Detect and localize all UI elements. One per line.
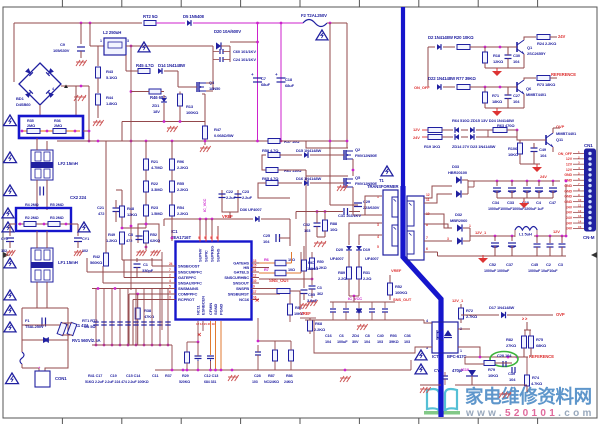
svg-text:SUPHV: SUPHV <box>198 248 203 262</box>
svg-text:1: 1 <box>100 39 102 43</box>
svg-text:R49: R49 <box>108 232 116 237</box>
svg-text:C9: C9 <box>60 42 66 47</box>
svg-text:102: 102 <box>1 249 7 253</box>
svg-text:362: 362 <box>317 292 323 296</box>
svg-text:24V: 24V <box>566 211 573 215</box>
svg-text:CY2: CY2 <box>1 237 8 241</box>
svg-text:13: 13 <box>253 259 257 263</box>
svg-text:D4SB60: D4SB60 <box>16 102 31 107</box>
svg-text:R71: R71 <box>492 93 500 98</box>
svg-text:24KΩ: 24KΩ <box>284 380 293 384</box>
svg-text:12V: 12V <box>566 157 573 161</box>
svg-text:SGND: SGND <box>213 304 218 315</box>
svg-text:12V_1: 12V_1 <box>475 230 487 235</box>
svg-text:C30: C30 <box>513 53 521 58</box>
svg-text:62KΩ: 62KΩ <box>150 238 161 243</box>
svg-text:4: 4 <box>52 87 54 91</box>
svg-text:GND: GND <box>564 189 572 193</box>
svg-text:2.2KΩ: 2.2KΩ <box>177 211 189 216</box>
svg-text:5: 5 <box>377 245 379 249</box>
svg-text:D22 1N4148W R77 39KΩ: D22 1N4148W R77 39KΩ <box>428 76 476 81</box>
svg-text:R74: R74 <box>532 375 540 380</box>
svg-text:100uF: 100uF <box>337 340 348 344</box>
svg-text:C33: C33 <box>507 200 515 205</box>
svg-text:R93: R93 <box>390 334 397 338</box>
svg-text:D20: D20 <box>336 247 344 252</box>
svg-text:Q6: Q6 <box>526 86 532 91</box>
svg-text:3: 3 <box>127 39 129 43</box>
svg-text:1000uF 10uF10uF: 1000uF 10uF10uF <box>528 269 558 273</box>
svg-text:GATEPFC: GATEPFC <box>178 275 196 280</box>
svg-text:MMBT4401: MMBT4401 <box>526 92 547 97</box>
svg-text:24V: 24V <box>566 221 573 225</box>
svg-text:D16 1N4148W: D16 1N4148W <box>296 176 321 181</box>
svg-text:SNSBOOST: SNSBOOST <box>178 264 200 269</box>
svg-text:D2 1N4148W R20 10KΩ: D2 1N4148W R20 10KΩ <box>428 35 474 40</box>
svg-text:CX2 224: CX2 224 <box>70 195 87 200</box>
svg-text:R44: R44 <box>106 95 114 100</box>
svg-text:3.3nF: 3.3nF <box>307 298 318 303</box>
svg-text:104: 104 <box>513 59 520 64</box>
svg-text:68KΩ: 68KΩ <box>536 343 547 348</box>
svg-text:SUPHS: SUPHS <box>216 248 221 262</box>
svg-text:SUPIC: SUPIC <box>204 250 209 262</box>
svg-text:12V: 12V <box>566 168 573 172</box>
svg-text:SNSMAINS: SNSMAINS <box>178 286 199 291</box>
svg-text:10KΩ: 10KΩ <box>508 152 519 157</box>
svg-text:R106: R106 <box>508 146 518 151</box>
svg-text:R52: R52 <box>395 284 403 289</box>
svg-text:5.1KΩ: 5.1KΩ <box>106 75 118 80</box>
svg-text:R47: R47 <box>214 127 222 132</box>
svg-text:12 13 21 20 19: 12 13 21 20 19 <box>196 322 215 326</box>
svg-text:11: 11 <box>578 204 581 208</box>
svg-text:1: 1 <box>460 349 462 353</box>
svg-text:3: 3 <box>447 237 449 241</box>
svg-text:≥ ≥: ≥ ≥ <box>522 316 528 321</box>
svg-text:C52: C52 <box>489 262 497 267</box>
svg-text:24V: 24V <box>540 174 547 179</box>
svg-text:1.2KΩ: 1.2KΩ <box>106 238 118 243</box>
svg-text:24: 24 <box>169 262 173 266</box>
svg-text:SNSOUT: SNSOUT <box>233 281 250 286</box>
svg-text:HBR20100: HBR20100 <box>448 170 468 175</box>
svg-text:C32: C32 <box>303 222 311 227</box>
svg-text:C4: C4 <box>536 200 542 205</box>
svg-text:102: 102 <box>82 249 88 253</box>
svg-text:R23: R23 <box>151 205 159 210</box>
svg-text:L1 5uH: L1 5uH <box>519 232 532 237</box>
svg-text:C22: C22 <box>226 189 234 194</box>
svg-text:103: 103 <box>377 340 383 344</box>
svg-text:560KΩ: 560KΩ <box>90 260 103 265</box>
svg-text:1000uF1000uF1000uF2200uF 1uF: 1000uF1000uF1000uF2200uF 1uF <box>488 207 544 211</box>
svg-text:LF1 15mH: LF1 15mH <box>58 260 78 265</box>
svg-text:12V_1: 12V_1 <box>452 298 464 303</box>
svg-text:R52: R52 <box>150 232 158 237</box>
svg-text:R73 18KΩ: R73 18KΩ <box>537 82 556 87</box>
svg-text:R19 1KΩ: R19 1KΩ <box>424 144 441 149</box>
svg-text:17: 17 <box>253 290 257 294</box>
svg-text:R5 2MΩ: R5 2MΩ <box>50 203 64 207</box>
svg-text:C47: C47 <box>549 200 557 205</box>
svg-text:C8: C8 <box>128 232 134 237</box>
svg-text:D14 1N4148W: D14 1N4148W <box>158 63 186 68</box>
svg-text:R37: R37 <box>165 374 172 378</box>
svg-text:ZD1: ZD1 <box>152 103 160 108</box>
svg-text:C21: C21 <box>97 205 105 210</box>
svg-text:10Ω: 10Ω <box>288 268 295 272</box>
svg-text:CN1: CN1 <box>584 143 593 148</box>
svg-text:R38: R38 <box>144 308 152 313</box>
svg-text:R88: R88 <box>330 221 338 226</box>
svg-text:47KΩ: 47KΩ <box>144 314 155 319</box>
svg-text:C8: C8 <box>365 334 370 338</box>
svg-text:D36 UF4007: D36 UF4007 <box>240 207 263 212</box>
svg-text:R4 2MΩ: R4 2MΩ <box>25 203 39 207</box>
svg-text:4: 4 <box>426 319 428 323</box>
svg-text:12: 12 <box>253 274 257 278</box>
svg-text:R7: R7 <box>264 268 269 272</box>
svg-text:C18: C18 <box>285 77 293 82</box>
svg-text:D32: D32 <box>455 212 463 217</box>
svg-text:CON1: CON1 <box>55 376 67 381</box>
svg-text:R54: R54 <box>177 205 185 210</box>
svg-text:Q2: Q2 <box>355 147 361 152</box>
svg-text:14: 14 <box>578 220 582 224</box>
svg-text:10KΩ: 10KΩ <box>488 373 499 378</box>
svg-text:C3: C3 <box>558 262 564 267</box>
svg-text:F2 T2AL250V: F2 T2AL250V <box>301 13 327 18</box>
svg-text:Q1: Q1 <box>527 45 533 50</box>
svg-text:R58 4.7Ω: R58 4.7Ω <box>262 148 279 153</box>
svg-text:4.7MΩ: 4.7MΩ <box>151 165 163 170</box>
svg-text:C36: C36 <box>404 334 411 338</box>
svg-text:R42: R42 <box>93 254 101 259</box>
svg-text:39KΩ: 39KΩ <box>389 340 399 344</box>
svg-text:C31 102/1KV: C31 102/1KV <box>338 213 361 218</box>
svg-text:C2: C2 <box>546 262 552 267</box>
svg-text:C11: C11 <box>152 374 158 378</box>
svg-text:3: 3 <box>377 223 379 227</box>
svg-text:2.2Ω: 2.2Ω <box>338 276 347 281</box>
svg-text:ZD14 27V D23 1N4148W: ZD14 27V D23 1N4148W <box>452 144 496 149</box>
svg-text:100KΩ: 100KΩ <box>395 290 408 295</box>
svg-text:30V: 30V <box>352 340 359 344</box>
svg-text:R2 2MΩ: R2 2MΩ <box>25 216 39 220</box>
svg-text:TRANSFORMER: TRANSFORMER <box>367 184 399 189</box>
svg-text:223/630V: 223/630V <box>363 205 380 210</box>
svg-text:12V: 12V <box>553 229 560 234</box>
svg-text:COMPPFC: COMPPFC <box>178 292 198 297</box>
svg-text:C40: C40 <box>377 334 384 338</box>
svg-text:R31: R31 <box>363 270 371 275</box>
svg-text:0.068Ω/5W: 0.068Ω/5W <box>214 133 234 138</box>
svg-text:15: 15 <box>253 264 257 268</box>
svg-text:C15 C14: C15 C14 <box>126 374 141 378</box>
svg-text:4.7KΩ: 4.7KΩ <box>531 381 543 386</box>
svg-text:C60 101/1KV: C60 101/1KV <box>233 49 256 54</box>
svg-text:VREF: VREF <box>222 214 233 219</box>
svg-text:UF4007: UF4007 <box>365 256 380 261</box>
svg-text:D33: D33 <box>452 164 460 169</box>
svg-text:C24 101/1KV: C24 101/1KV <box>233 57 256 62</box>
svg-text:L2 250uH: L2 250uH <box>103 30 121 35</box>
svg-text:104: 104 <box>513 99 520 104</box>
svg-text:C37: C37 <box>506 262 514 267</box>
svg-text:SNSFB: SNSFB <box>236 286 249 291</box>
svg-text:R29: R29 <box>182 374 189 378</box>
svg-text:1: 1 <box>469 224 471 228</box>
svg-text:24V: 24V <box>566 205 573 209</box>
svg-text:R82: R82 <box>506 337 514 342</box>
svg-text:C29: C29 <box>363 199 371 204</box>
svg-text:684 331: 684 331 <box>204 380 216 384</box>
svg-text:2SC2655Y: 2SC2655Y <box>527 51 546 56</box>
svg-text:18KΩ: 18KΩ <box>492 99 503 104</box>
svg-text:12V: 12V <box>566 163 573 167</box>
svg-text:C16: C16 <box>325 334 332 338</box>
svg-text:C3: C3 <box>317 286 322 290</box>
svg-text:104: 104 <box>509 377 516 382</box>
svg-text:UF4007: UF4007 <box>330 256 345 261</box>
svg-text:BPC-617C: BPC-617C <box>447 354 467 359</box>
svg-text:GND: GND <box>564 200 572 204</box>
svg-text:R50: R50 <box>317 260 324 264</box>
svg-text:GATELS: GATELS <box>234 270 250 275</box>
svg-text:D15 1N4148W: D15 1N4148W <box>296 148 321 153</box>
svg-text:2.2uF: 2.2uF <box>226 195 237 200</box>
svg-text:D17 1N4148W: D17 1N4148W <box>489 305 514 310</box>
svg-text:C49: C49 <box>539 147 547 152</box>
svg-text:24V: 24V <box>413 135 420 140</box>
svg-text:4: 4 <box>377 235 379 239</box>
svg-text:REFERENCE: REFERENCE <box>529 354 554 359</box>
svg-text:2MΩ: 2MΩ <box>27 124 35 128</box>
svg-text:1.2KΩ: 1.2KΩ <box>307 266 319 271</box>
svg-text:12: 12 <box>578 209 582 213</box>
svg-text:Q5: Q5 <box>355 175 361 180</box>
svg-text:GND: GND <box>564 173 572 177</box>
svg-text:12KΩ: 12KΩ <box>127 212 138 217</box>
svg-text:www.520101.com: www.520101.com <box>465 408 595 419</box>
svg-text:100KΩ: 100KΩ <box>186 110 199 115</box>
svg-text:1000uF 1000uF: 1000uF 1000uF <box>484 269 510 273</box>
svg-text:家电维修资料网: 家电维修资料网 <box>465 386 592 407</box>
svg-text:2.2uF: 2.2uF <box>242 195 253 200</box>
svg-text:R36: R36 <box>54 119 61 123</box>
svg-text:Q11: Q11 <box>556 137 564 142</box>
svg-text:SUPREG: SUPREG <box>210 246 215 262</box>
svg-text:ON_OFF: ON_OFF <box>558 152 573 156</box>
svg-text:11: 11 <box>253 268 256 272</box>
svg-text:10: 10 <box>578 198 582 202</box>
svg-text:IC10: IC10 <box>461 367 470 372</box>
svg-text:SNSAUXPFC: SNSAUXPFC <box>178 281 202 286</box>
svg-text:SNSCURPFC: SNSCURPFC <box>178 270 202 275</box>
svg-text:R22: R22 <box>151 181 159 186</box>
svg-text:C45: C45 <box>531 262 539 267</box>
svg-text:R55: R55 <box>177 181 185 186</box>
svg-text:R67: R67 <box>308 260 316 265</box>
svg-text:R79: R79 <box>488 367 496 372</box>
svg-text:CY1: CY1 <box>82 237 89 241</box>
svg-text:2.2KΩ: 2.2KΩ <box>177 187 189 192</box>
svg-text:MMBT4401: MMBT4401 <box>556 131 577 136</box>
svg-text:SNSCURHBC: SNSCURHBC <box>224 275 249 280</box>
svg-text:R63 470Ω: R63 470Ω <box>497 123 515 128</box>
svg-text:472: 472 <box>98 211 105 216</box>
svg-text:3.3MΩ: 3.3MΩ <box>151 187 163 192</box>
svg-text:104: 104 <box>540 153 547 158</box>
svg-text:FMV12N50E: FMV12N50E <box>355 153 377 158</box>
svg-text:520KΩ: 520KΩ <box>179 380 190 384</box>
svg-text:68uF: 68uF <box>261 82 271 87</box>
svg-text:103: 103 <box>304 228 311 233</box>
svg-text:TEA1716T: TEA1716T <box>171 235 191 240</box>
svg-text:SNSBURST: SNSBURST <box>228 292 250 297</box>
svg-text:NC16: NC16 <box>239 297 250 302</box>
svg-text:SNS_OUT: SNS_OUT <box>393 297 412 302</box>
svg-text:D20 10A/600V: D20 10A/600V <box>214 29 241 34</box>
svg-text:2.2KΩ: 2.2KΩ <box>177 165 189 170</box>
svg-text:18N50: 18N50 <box>209 86 221 91</box>
svg-text:12V: 12V <box>413 127 420 132</box>
svg-text:GND: GND <box>564 195 572 199</box>
svg-text:18V: 18V <box>153 109 160 114</box>
svg-text:C20 104: C20 104 <box>497 353 512 358</box>
svg-text:10Ω: 10Ω <box>330 227 338 232</box>
svg-text:R35: R35 <box>27 119 34 123</box>
svg-text:27KΩ: 27KΩ <box>506 343 517 348</box>
svg-text:BD1: BD1 <box>16 96 25 101</box>
svg-text:472: 472 <box>126 238 133 243</box>
svg-text:6: 6 <box>426 247 428 251</box>
svg-text:C34: C34 <box>492 200 500 205</box>
svg-text:ICT: ICT <box>432 354 439 359</box>
svg-text:T1: T1 <box>379 178 384 183</box>
svg-text:R45 4.7Ω: R45 4.7Ω <box>136 63 154 68</box>
svg-text:IC_VCC: IC_VCC <box>203 198 207 212</box>
svg-text:R18: R18 <box>493 53 501 58</box>
svg-text:C1: C1 <box>143 262 149 267</box>
svg-text:R24 2.2KΩ: R24 2.2KΩ <box>537 41 557 46</box>
svg-text:ON_OFF: ON_OFF <box>414 85 430 90</box>
svg-text:11: 11 <box>426 198 430 202</box>
svg-text:R43: R43 <box>106 69 114 74</box>
svg-text:RCPROT: RCPROT <box>178 297 195 302</box>
svg-text:ESNBCEN: ESNBCEN <box>201 296 206 315</box>
svg-text:C28: C28 <box>254 374 261 378</box>
svg-text:2MΩ: 2MΩ <box>54 124 62 128</box>
svg-text:105/630V: 105/630V <box>53 48 70 53</box>
svg-text:24V: 24V <box>566 216 573 220</box>
svg-text:R75: R75 <box>536 337 544 342</box>
svg-text:NC/24KΩ: NC/24KΩ <box>264 380 279 384</box>
svg-text:R13: R13 <box>186 104 194 109</box>
svg-text:68uF: 68uF <box>285 83 295 88</box>
svg-text:7: 7 <box>426 236 428 240</box>
svg-text:C6: C6 <box>339 334 344 338</box>
svg-text:13: 13 <box>578 214 582 218</box>
svg-text:R3 2MΩ: R3 2MΩ <box>50 216 64 220</box>
svg-text:D19: D19 <box>363 247 371 252</box>
svg-text:1.5MΩ: 1.5MΩ <box>151 211 163 216</box>
svg-text:R41 C17: R41 C17 <box>88 374 102 378</box>
svg-text:R48: R48 <box>127 206 135 211</box>
svg-text:2.2Ω: 2.2Ω <box>363 276 372 281</box>
svg-text:C39: C39 <box>508 371 516 376</box>
svg-text:104: 104 <box>325 340 332 344</box>
svg-text:RT2 5Ω: RT2 5Ω <box>143 14 158 19</box>
svg-text:2.2KΩ: 2.2KΩ <box>314 327 326 332</box>
svg-text:R68: R68 <box>315 321 323 326</box>
svg-text:C23: C23 <box>242 189 250 194</box>
svg-text:12KΩ: 12KΩ <box>493 59 504 64</box>
svg-text:ZD4: ZD4 <box>352 334 360 338</box>
svg-text:C55: C55 <box>308 292 316 297</box>
svg-text:24V: 24V <box>566 227 573 231</box>
svg-text:24V: 24V <box>558 34 565 39</box>
svg-text:R21: R21 <box>151 159 159 164</box>
svg-text:VREF: VREF <box>391 268 402 273</box>
svg-text:R86: R86 <box>286 374 293 378</box>
svg-text:330pF: 330pF <box>142 268 154 273</box>
svg-text:OVP: OVP <box>556 312 565 317</box>
svg-text:C19: C19 <box>110 374 117 378</box>
svg-text:R72: R72 <box>466 308 474 313</box>
svg-text:104: 104 <box>263 239 270 244</box>
svg-text:51KΩ 2.2uF 2.2uF 224 474 2.2uF: 51KΩ 2.2uF 2.2uF 224 474 2.2uF 100KΩ <box>85 380 149 384</box>
svg-text:C27: C27 <box>513 93 521 98</box>
svg-text:10: 10 <box>253 279 257 283</box>
svg-text:T5AL250V: T5AL250V <box>25 324 44 329</box>
svg-text:REFERENCE: REFERENCE <box>551 72 576 77</box>
svg-text:R6: R6 <box>264 258 269 262</box>
svg-text:LF2 15mH: LF2 15mH <box>58 161 78 166</box>
svg-text:R96: R96 <box>177 159 185 164</box>
svg-text:103: 103 <box>252 380 258 384</box>
svg-text:VREF: VREF <box>300 311 311 316</box>
svg-text:PGND: PGND <box>219 304 224 315</box>
svg-text:D5 1N5408: D5 1N5408 <box>183 14 205 19</box>
svg-text:R89: R89 <box>338 270 346 275</box>
svg-text:CY5: CY5 <box>434 368 443 373</box>
svg-text:15: 15 <box>578 225 582 229</box>
svg-text:12: 12 <box>426 193 430 197</box>
svg-text:CN-M: CN-M <box>583 235 595 240</box>
svg-text:R65 4.7Ω: R65 4.7Ω <box>262 176 279 181</box>
svg-text:C25: C25 <box>263 233 271 238</box>
svg-text:C12 C13: C12 C13 <box>204 374 218 378</box>
svg-text:C7: C7 <box>261 76 267 81</box>
svg-text:×: × <box>255 298 259 305</box>
svg-text:103: 103 <box>404 340 410 344</box>
svg-text:MBR2060: MBR2060 <box>450 218 468 223</box>
svg-text:104: 104 <box>364 340 371 344</box>
svg-text:GND: GND <box>564 184 572 188</box>
svg-text:1.8KΩ: 1.8KΩ <box>106 101 118 106</box>
svg-text:R87: R87 <box>268 374 275 378</box>
